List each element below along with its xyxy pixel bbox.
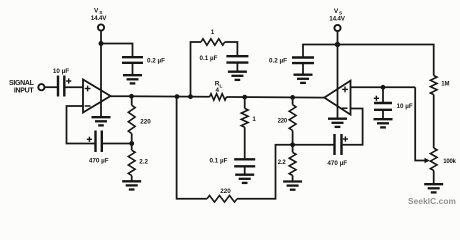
svg-text:1: 1 xyxy=(252,116,256,123)
svg-text:0.1 µF: 0.1 µF xyxy=(200,55,218,62)
wire R1 right to C7 xyxy=(244,127,246,158)
op-amp A2 xyxy=(324,81,350,115)
ground below C7 xyxy=(235,175,254,183)
wire node to R2.2 A2 xyxy=(292,145,294,153)
resistor 1 snubber top xyxy=(201,29,225,45)
ground below potentiometer xyxy=(424,184,443,192)
capacitor C8 10uF bias bypass xyxy=(374,96,413,110)
supply terminal VS right xyxy=(329,8,345,31)
wire main line A1 output to RL xyxy=(110,95,209,98)
svg-text:0.1 µF: 0.1 µF xyxy=(210,158,228,165)
node main line to A2 network xyxy=(290,95,295,100)
svg-text:10 µF: 10 µF xyxy=(53,68,69,75)
svg-text:0.2 µF: 0.2 µF xyxy=(147,57,165,64)
resistor RL 4 load xyxy=(210,81,227,101)
wire supply junction to R 1M xyxy=(338,45,434,76)
wire R1M to potentiometer xyxy=(433,95,435,148)
wire C8 to ground xyxy=(382,110,384,119)
node A2 + input junction xyxy=(381,85,386,90)
ground below R2.2 left xyxy=(122,181,141,189)
wire C1 to op-amp A1 noninverting input xyxy=(65,86,83,88)
wire node down to R220 A2 xyxy=(292,97,294,104)
resistor 1M bias divider xyxy=(430,76,449,95)
label SIGNAL INPUT xyxy=(9,80,35,94)
node right supply junction xyxy=(335,42,340,47)
svg-text:0.2 µF: 0.2 µF xyxy=(269,58,287,65)
wire supply junction to C2 xyxy=(101,44,133,57)
svg-text:4: 4 xyxy=(216,87,220,94)
wire node to R 2.2 xyxy=(131,144,133,151)
wire C7 to ground xyxy=(244,166,246,174)
wire potentiometer to ground xyxy=(433,171,435,185)
svg-text:2.2: 2.2 xyxy=(278,160,287,166)
capacitor C3 470uF A1 feedback xyxy=(87,131,109,165)
wire R220 A2 to node xyxy=(292,131,294,146)
wire R2.2 A2 to ground xyxy=(292,176,294,182)
ground below C4 xyxy=(228,72,247,80)
ground below A1 xyxy=(92,117,111,125)
wire node down to R1 right xyxy=(244,97,246,108)
wire node down to C8 xyxy=(382,87,384,102)
ground below A2 xyxy=(328,119,347,127)
potentiometer 100k xyxy=(430,148,456,171)
capacitor C5 0.2uF right supply bypass xyxy=(269,58,314,65)
op-amp A1 xyxy=(83,80,111,113)
wire R220 to node xyxy=(131,134,133,145)
wire main line down to bottom R220 xyxy=(177,97,207,199)
wire R2.2 to ground xyxy=(131,176,133,182)
wire VS right rail down through A2 to ground xyxy=(337,31,339,119)
wire bottom R220 up to A2 feedback node xyxy=(237,145,293,199)
svg-text:470 µF: 470 µF xyxy=(89,157,109,164)
resistor 220 bottom coupling xyxy=(207,188,237,202)
wire C6 to A2 inverting input xyxy=(343,109,363,145)
wire A2 feedback node to C6 xyxy=(293,144,334,146)
wire snubber R to C4 xyxy=(225,42,238,55)
svg-text:L: L xyxy=(220,84,223,90)
ground below R2.2 A2 xyxy=(283,182,302,190)
resistor 2.2 A2 to ground xyxy=(278,152,296,175)
svg-text:14.4V: 14.4V xyxy=(329,15,345,22)
wire node up to snubber R xyxy=(191,42,202,97)
wire C4 to ground xyxy=(236,63,238,72)
capacitor C4 0.1uF snubber top xyxy=(200,55,249,62)
svg-text:220: 220 xyxy=(220,188,231,195)
watermark SeekIC.com xyxy=(408,196,456,206)
supply terminal VS left xyxy=(91,8,107,31)
node main line to bottom loop xyxy=(175,94,180,99)
svg-text:10 µF: 10 µF xyxy=(397,103,413,110)
wire A1 output node down to R 220 xyxy=(131,96,133,105)
wire C3 to feedback node xyxy=(103,143,132,145)
ground below C8 xyxy=(374,119,393,127)
resistor 1 snubber right xyxy=(241,108,256,127)
capacitor C2 0.2uF left supply bypass xyxy=(122,57,165,64)
signal input terminal xyxy=(38,84,44,90)
svg-text:INPUT: INPUT xyxy=(14,87,35,94)
svg-text:220: 220 xyxy=(278,118,288,124)
wire C2 to ground xyxy=(132,63,134,75)
ground below C5 xyxy=(294,75,313,83)
wire VS left rail down through A1 to ground xyxy=(100,31,102,118)
wire A2 noninverting input to divider xyxy=(351,86,416,88)
wire wiper from A2 + input line xyxy=(415,87,430,163)
wire A1 inverting input loop to C3 xyxy=(67,106,95,144)
node main line to right snubber xyxy=(242,95,247,100)
node A1 output xyxy=(129,94,134,99)
wire input terminal to C1 xyxy=(45,86,57,88)
svg-text:14.4V: 14.4V xyxy=(91,15,107,22)
svg-text:220: 220 xyxy=(140,118,151,125)
capacitor C6 470uF A2 feedback xyxy=(327,134,348,167)
wire C5 to ground xyxy=(302,63,304,74)
wire supply junction to C5 xyxy=(303,45,338,57)
capacitor C7 0.1uF snubber right xyxy=(210,158,256,167)
svg-text:2.2: 2.2 xyxy=(139,158,148,165)
svg-text:1: 1 xyxy=(211,29,215,36)
svg-text:1M: 1M xyxy=(441,81,449,87)
node A1 feedback junction xyxy=(129,141,134,146)
svg-text:100k: 100k xyxy=(443,159,456,165)
wire main line RL to A2 output xyxy=(226,96,324,99)
ground below C2 xyxy=(123,75,142,83)
node left supply junction xyxy=(99,41,104,46)
node A2 feedback junction xyxy=(290,142,295,147)
resistor 220 A1 feedback xyxy=(128,105,151,133)
svg-text:470 µF: 470 µF xyxy=(327,160,347,167)
resistor 2.2 A1 to ground xyxy=(128,150,148,175)
svg-text:SeekIC.com: SeekIC.com xyxy=(408,196,456,206)
node main line to snubber xyxy=(188,94,193,99)
resistor 220 A2 feedback xyxy=(278,105,296,131)
svg-text:SIGNAL: SIGNAL xyxy=(9,80,35,87)
capacitor C1 10uF input coupling xyxy=(53,68,71,97)
